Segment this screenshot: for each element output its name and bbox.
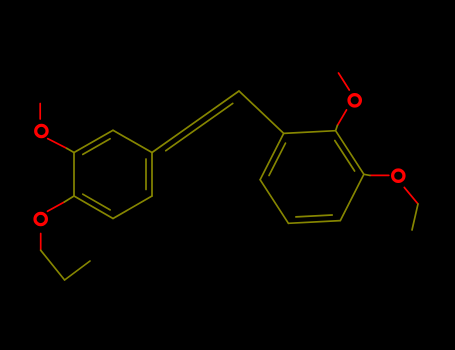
left ring C1-C2 edge T-UR	[113, 130, 152, 152]
left ring double bond inner line Bm-LL	[83, 194, 110, 210]
left tail CH2-CH2	[41, 250, 65, 280]
left tail CH2-CH3	[65, 261, 90, 280]
bridge main bond Ar1-C8 (long)	[152, 91, 239, 153]
left ring double bond inner line UR-LR	[145, 159, 147, 190]
right ring edge A-F	[284, 131, 336, 134]
right ring edge B-A	[260, 133, 284, 179]
bond O1-ring red part	[48, 139, 67, 149]
right tail CH2-CH3	[412, 204, 418, 230]
atom label O4 (right)	[393, 170, 404, 181]
left ring C3-C4 edge LR-Bm	[113, 196, 152, 219]
right ring edge E-D	[340, 174, 364, 220]
bond O4-ring red part	[370, 174, 389, 176]
right ring double bond inner line F-E	[335, 141, 355, 172]
bond O3-CH3 (up-left)	[339, 73, 350, 90]
right ring edge D-C	[288, 221, 340, 224]
atom label O2 (left bottom)	[35, 213, 46, 224]
bond O1-CH3 (up)	[39, 104, 41, 120]
atom label O1 (left top)	[36, 125, 47, 136]
bond O3-ring red part	[337, 110, 346, 126]
bond O1-ring olive part	[67, 148, 74, 152]
bridge bond C8-Ar2	[239, 91, 284, 133]
left ring C4-C5 edge Bm-LL	[74, 196, 113, 219]
bond O4-ring olive part	[364, 174, 370, 175]
right ring edge C-B	[260, 180, 288, 224]
right ring double bond inner line B-A	[269, 143, 286, 175]
bond O4-CH2 (down-right)	[404, 187, 418, 204]
left ring C5-C6 edge LL-UL	[73, 153, 75, 197]
right ring double bond inner line D-C	[296, 215, 332, 217]
left ring C2-C3 edge UR-LR	[151, 153, 153, 197]
bond O2-ring red part	[48, 202, 65, 211]
bond O3-ring olive part	[336, 125, 338, 130]
bond O2-CH2 (down)	[40, 234, 42, 251]
right ring edge F-E	[336, 131, 364, 175]
bond O2-ring olive part	[64, 196, 74, 202]
left ring C6-C1 edge UL-T	[74, 130, 113, 152]
left ring double bond inner line UL-T	[83, 139, 110, 155]
bridge double bond parallel line	[166, 103, 233, 150]
atom label O3 (right top)	[349, 95, 360, 106]
